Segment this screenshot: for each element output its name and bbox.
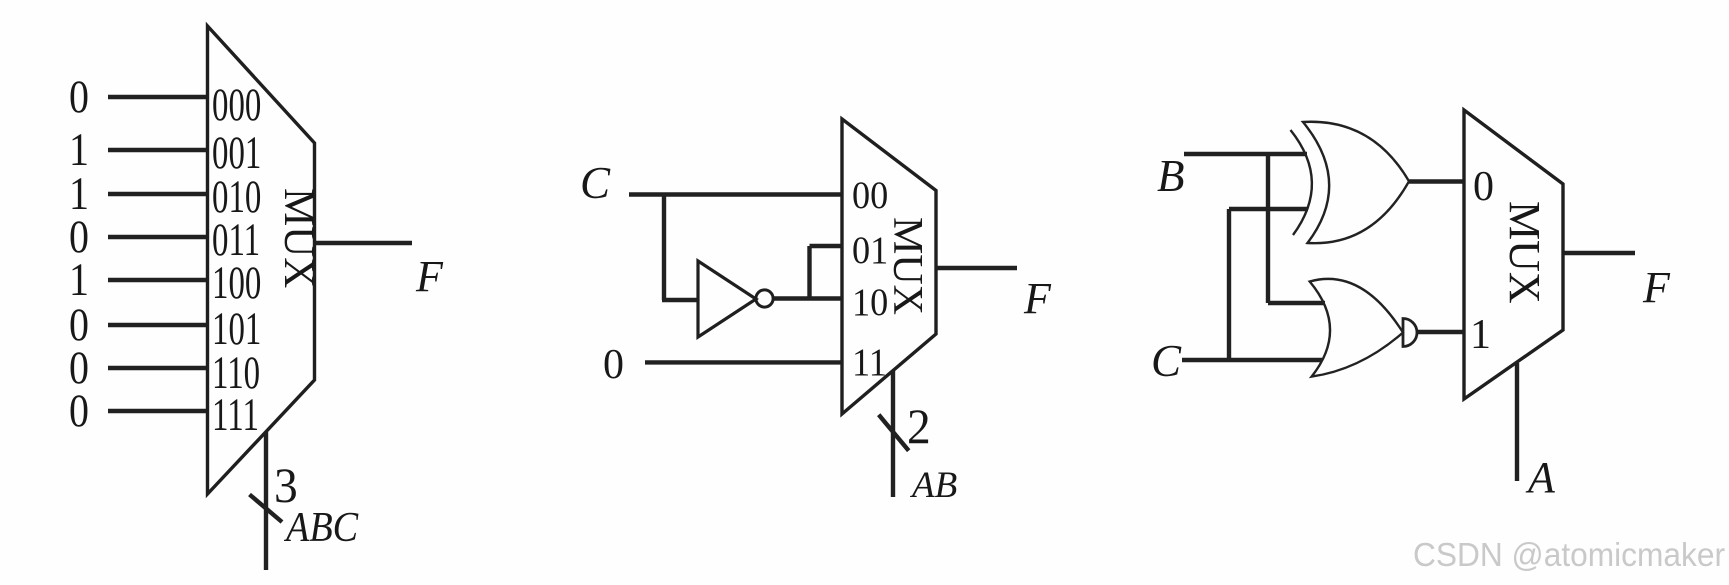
wire B branch to nor upper input	[1268, 301, 1325, 305]
inverter U1 bubble	[756, 290, 773, 307]
svg-text:C: C	[580, 158, 611, 208]
select wire A	[1515, 363, 1519, 481]
bus width slash 2	[879, 415, 909, 451]
wire F1 output	[315, 241, 413, 245]
wire D2 input	[108, 192, 207, 196]
svg-text:0: 0	[1473, 164, 1494, 210]
wire D7 input	[108, 409, 207, 413]
mux M3 body	[1464, 110, 1563, 399]
svg-text:F: F	[1023, 274, 1052, 323]
inverter U1 triangle	[698, 261, 756, 337]
wire C branch vertical	[662, 195, 666, 301]
wire jog vertical	[807, 246, 811, 299]
svg-text:111: 111	[212, 388, 259, 440]
wire C branch to xor lower input	[1229, 207, 1308, 211]
nor gate G2 body	[1310, 279, 1403, 377]
wire B branch vertical down	[1266, 154, 1270, 303]
mux M1 body	[208, 26, 315, 494]
svg-text:1: 1	[69, 254, 89, 306]
wire nor output to mux pin 1	[1417, 330, 1464, 334]
svg-text:F: F	[415, 252, 444, 301]
svg-text:ABC: ABC	[283, 503, 359, 550]
wire F2 output	[936, 266, 1017, 270]
svg-text:2: 2	[907, 399, 931, 454]
xor gate G1 body	[1303, 122, 1409, 243]
svg-text:C: C	[1151, 336, 1182, 386]
select bus wire AB	[891, 371, 895, 497]
wire 0 to pin 11	[645, 360, 842, 364]
wire B to xor	[1184, 152, 1307, 156]
wire jog horizontal to pin 01	[810, 244, 843, 248]
svg-text:11: 11	[852, 341, 887, 384]
wire D0 input	[108, 95, 207, 99]
svg-text:000: 000	[212, 78, 261, 130]
nor gate G2 bubble	[1403, 319, 1417, 347]
svg-text:0: 0	[69, 71, 89, 123]
wire D5 input	[108, 323, 207, 327]
svg-text:0: 0	[603, 342, 624, 388]
select bus wire ABC	[264, 432, 268, 570]
wire inverter input	[662, 298, 698, 302]
wire C branch vertical up	[1227, 209, 1231, 360]
svg-text:100: 100	[212, 256, 261, 308]
wire inverter output to pin 10	[773, 296, 842, 300]
svg-text:CSDN @atomicmaker: CSDN @atomicmaker	[1413, 536, 1725, 573]
wire F3 output	[1563, 251, 1635, 255]
xor gate G1 input arc	[1291, 130, 1312, 235]
wire D4 input	[108, 278, 207, 282]
mux M2 body	[842, 119, 936, 414]
wire C to nor	[1182, 358, 1322, 362]
wire D1 input	[108, 148, 207, 152]
svg-text:MUX: MUX	[275, 188, 322, 288]
svg-text:MUX: MUX	[1500, 201, 1549, 304]
wire C to pin 00	[629, 192, 842, 196]
svg-text:1: 1	[1470, 312, 1491, 358]
wire xor output to mux pin 0	[1409, 179, 1464, 183]
svg-text:A: A	[1525, 453, 1556, 502]
svg-text:AB: AB	[909, 465, 957, 506]
wire D6 input	[108, 366, 207, 370]
svg-text:MUX: MUX	[884, 217, 930, 315]
svg-text:01: 01	[852, 229, 888, 272]
bus width slash 3	[250, 495, 283, 523]
wire D3 input	[108, 235, 207, 239]
svg-text:B: B	[1157, 151, 1185, 201]
svg-text:10: 10	[852, 281, 888, 324]
svg-text:0: 0	[69, 385, 89, 437]
svg-text:00: 00	[852, 174, 888, 217]
svg-text:F: F	[1642, 263, 1671, 312]
